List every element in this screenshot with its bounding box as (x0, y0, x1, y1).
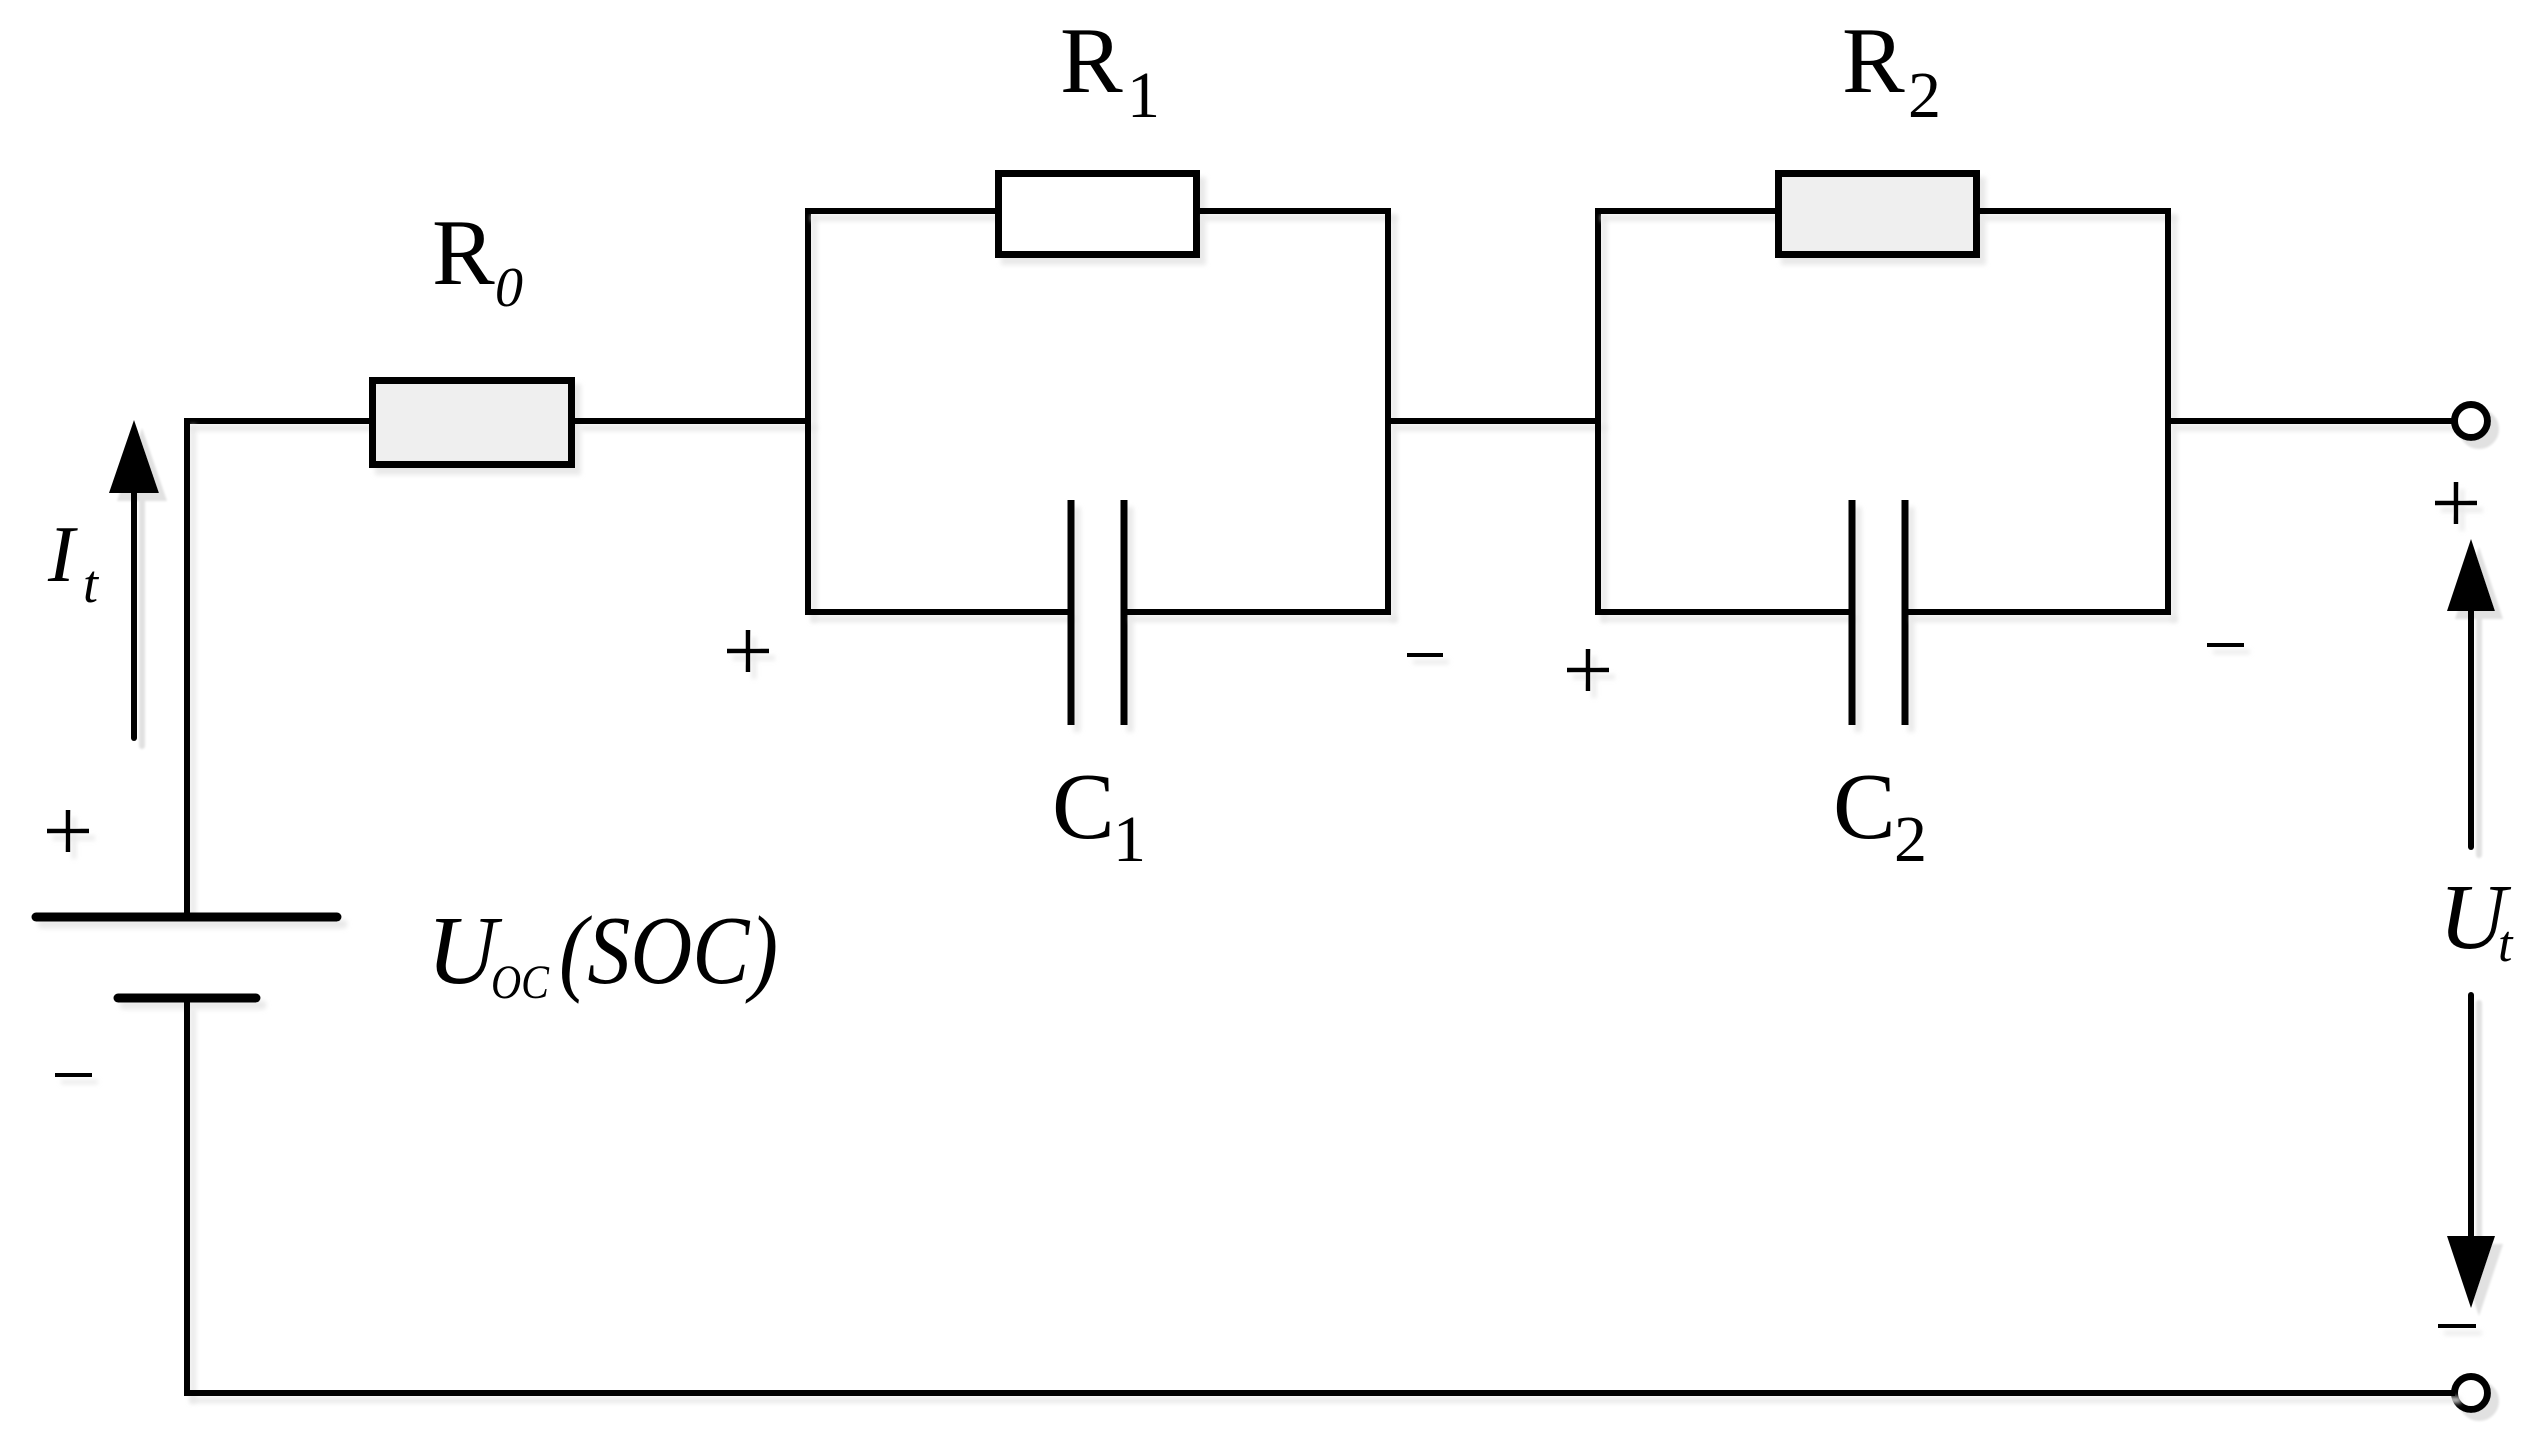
wire: RC1 loop bottom right segment (1124, 609, 1391, 615)
node minus polarity mark RC2 (2207, 643, 2244, 647)
svg-text:t: t (83, 554, 100, 614)
svg-text:R: R (432, 201, 495, 305)
wire: RC2 loop top left segment (1595, 208, 1779, 214)
wire: left branch vertical upper (184, 418, 190, 913)
node battery minus polarity mark (55, 1073, 92, 1077)
svg-text:2: 2 (1908, 59, 1941, 132)
wire: R0 to RC group 1 (575, 418, 811, 424)
node output terminal top (2455, 405, 2488, 438)
wire: RC1 loop top right segment (1197, 208, 1391, 214)
label Ut (2439, 866, 2514, 973)
wire: RC2 loop left vertical (1595, 208, 1601, 615)
svg-text:R: R (1060, 9, 1123, 113)
svg-text:(SOC): (SOC) (559, 897, 778, 1004)
node output terminal bottom (2455, 1377, 2488, 1410)
wire: top rail from battery node to R0 (184, 418, 372, 424)
battery negative plate (118, 994, 256, 1003)
capacitor C1 (1071, 500, 1124, 725)
svg-text:2: 2 (1894, 803, 1927, 876)
svg-text:1: 1 (1127, 59, 1160, 132)
battery positive plate (36, 913, 337, 922)
wire: RC1 loop left vertical (805, 208, 811, 615)
svg-text:I: I (47, 511, 78, 599)
label C1 (1052, 755, 1146, 876)
wire: RC2 loop right vertical (2165, 208, 2171, 615)
svg-text:C: C (1833, 755, 1896, 859)
label R2 (1842, 9, 1941, 132)
label R1 (1060, 9, 1160, 132)
wire: RC1 loop bottom left segment (805, 609, 1071, 615)
arrow Ut up (2447, 539, 2495, 847)
label It (47, 511, 100, 614)
wire: RC2 loop top right segment (1977, 208, 2171, 214)
wire: RC2 loop bottom left segment (1595, 609, 1852, 615)
wire: RC1 loop right vertical (1385, 208, 1391, 615)
svg-text:R: R (1842, 9, 1905, 113)
label R0 (432, 201, 523, 319)
arrow Ut down (2447, 995, 2495, 1308)
node battery plus polarity mark (47, 810, 89, 852)
node minus polarity mark output (2438, 1324, 2476, 1328)
node plus polarity mark RC1 (727, 630, 769, 672)
wire: left branch vertical lower (184, 1002, 190, 1396)
resistor R0 (373, 381, 572, 465)
resistor R1 (999, 174, 1197, 255)
resistor R2 (1779, 174, 1977, 255)
arrow It current (109, 420, 159, 738)
svg-text:OC: OC (491, 956, 550, 1009)
svg-text:0: 0 (495, 257, 523, 319)
node plus polarity mark RC2 (1567, 649, 1609, 691)
capacitor C2 (1852, 500, 1905, 725)
svg-text:t: t (2498, 916, 2514, 973)
svg-text:C: C (1052, 755, 1115, 859)
wire: RC1 to RC2 (1388, 418, 1601, 424)
wire: RC2 loop bottom right segment (1905, 609, 2171, 615)
wire: RC1 loop top left segment (805, 208, 999, 214)
label C2 (1833, 755, 1927, 876)
wire: bottom rail (184, 1390, 2455, 1396)
node minus polarity mark RC1 (1407, 653, 1443, 657)
wire: RC2 to output terminal (2168, 418, 2455, 424)
svg-text:1: 1 (1113, 803, 1146, 876)
node plus polarity mark output (2435, 482, 2477, 524)
label UOC(SOC) battery source value (427, 897, 778, 1009)
